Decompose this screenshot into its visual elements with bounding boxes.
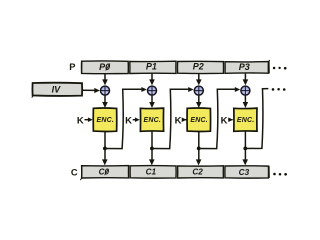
block C2 (ciphertext block) xyxy=(178,166,224,178)
label C (ciphertext row) xyxy=(71,167,78,177)
svg-text:P: P xyxy=(69,62,75,72)
block P3 (plaintext block) xyxy=(225,62,268,74)
svg-text:K: K xyxy=(221,115,228,126)
wire P-row right edge restroke xyxy=(268,61,270,73)
wire E3 to C2 xyxy=(196,131,202,165)
wire C-row left edge restroke xyxy=(81,166,83,178)
wire corner tick IV bottom-left xyxy=(32,96,33,98)
wire K3 to E3 xyxy=(182,117,187,122)
wire E1 to C0 xyxy=(102,131,108,165)
block C1 (ciphertext block) xyxy=(130,166,176,179)
svg-text:C: C xyxy=(71,167,78,177)
label K2 (key input) xyxy=(125,115,132,126)
svg-text:P1: P1 xyxy=(146,62,157,72)
wire corner tick P3 top-right xyxy=(269,59,270,62)
block ENC E1 (block cipher encryption) xyxy=(93,108,117,131)
wire feedback C1 to XOR X3 xyxy=(152,87,194,149)
xor gate X3 xyxy=(194,86,203,95)
svg-text:C3: C3 xyxy=(239,168,250,177)
xor gate X4 xyxy=(241,86,250,95)
wire feedback C0 to XOR X2 xyxy=(105,87,147,149)
wire P1 to XOR X2 xyxy=(149,74,155,86)
svg-text:ENC.: ENC. xyxy=(97,117,115,124)
svg-text:K: K xyxy=(175,115,182,126)
block ENC E3 (block cipher encryption) xyxy=(187,108,211,131)
xor gate X2 xyxy=(147,86,156,95)
svg-text:P2: P2 xyxy=(193,62,204,72)
node J3 (ciphertext tap) xyxy=(197,147,201,151)
xor gate X1 xyxy=(100,86,109,95)
label K3 (key input) xyxy=(175,115,182,126)
svg-text:IV: IV xyxy=(52,85,62,95)
svg-text:C2: C2 xyxy=(192,168,203,177)
node J1 (ciphertext tap) xyxy=(103,147,107,151)
wire X1 to ENC E1 xyxy=(102,96,108,108)
label K4 (key input) xyxy=(221,115,228,126)
svg-text:P3: P3 xyxy=(239,62,250,72)
wire C-row right edge restroke xyxy=(268,166,270,178)
label K1 (key input) xyxy=(77,115,84,126)
wire P2 to XOR X3 xyxy=(196,74,202,86)
block C3 (ciphertext block) xyxy=(225,166,269,178)
wire feedback C3 to next stage xyxy=(245,89,268,149)
ellipsis feedback continues xyxy=(272,88,286,91)
wire K2 to E2 xyxy=(133,117,140,122)
svg-text:ENC.: ENC. xyxy=(144,117,162,124)
block ENC E2 (block cipher encryption) xyxy=(140,108,163,131)
label P (plaintext row) xyxy=(69,62,75,72)
wire X4 to ENC E4 xyxy=(243,96,249,108)
svg-text:ENC.: ENC. xyxy=(190,117,208,124)
block P1 (plaintext block) xyxy=(130,61,176,73)
svg-text:ENC.: ENC. xyxy=(237,117,255,124)
wire K1 to E1 xyxy=(85,117,93,122)
wire X2 to ENC E2 xyxy=(149,96,155,108)
block ENC E4 (block cipher encryption) xyxy=(234,108,257,131)
wire P0 to XOR X1 xyxy=(102,74,108,86)
wire E4 to C3 xyxy=(242,131,248,165)
wire corner tick C0 bottom-left xyxy=(80,178,81,180)
node J4 (ciphertext tap) xyxy=(243,147,247,151)
block P2 (plaintext block) xyxy=(177,61,223,73)
wire P-row left edge restroke xyxy=(81,61,83,73)
wire K4 to E4 xyxy=(228,117,233,122)
ellipsis after C3 xyxy=(273,173,287,176)
wire X3 to ENC E3 xyxy=(196,96,202,108)
svg-text:K: K xyxy=(125,115,132,126)
wire IV to XOR X1 xyxy=(83,88,100,93)
wire P3 to XOR X4 xyxy=(243,74,249,86)
block IV (initialization vector) xyxy=(32,83,82,96)
svg-text:K: K xyxy=(77,115,84,126)
svg-text:P0: P0 xyxy=(99,62,110,72)
wire E2 to C1 xyxy=(149,131,155,165)
node J2 (ciphertext tap) xyxy=(150,147,154,151)
svg-text:C0: C0 xyxy=(99,168,110,177)
wire feedback C2 to XOR X4 xyxy=(199,87,240,149)
svg-text:C1: C1 xyxy=(146,168,157,177)
block P0 (plaintext block) xyxy=(81,61,128,74)
ellipsis after P3 xyxy=(273,67,287,70)
block C0 (ciphertext block) xyxy=(82,166,129,178)
